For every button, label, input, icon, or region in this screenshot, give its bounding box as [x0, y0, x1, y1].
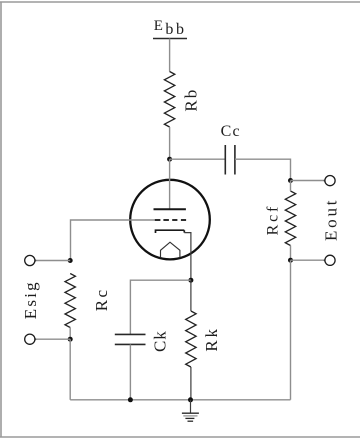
wire end nub at Eout bottom terminal [324, 259, 326, 261]
junction node A (plate node) [167, 157, 172, 162]
wire Rk bottom to rail [190, 367, 192, 400]
wire to Esig top terminal [34, 260, 70, 262]
cathode lead wire to cathode node [184, 233, 191, 281]
junction ground at rail [188, 397, 193, 402]
wire Cc right plate to output node [235, 159, 291, 180]
terminal Eout bottom [325, 255, 335, 265]
terminal Esig bottom [25, 334, 35, 344]
ground symbol [182, 413, 199, 421]
label Ebb [154, 18, 187, 38]
wire Rcf bottom stub [290, 246, 292, 261]
svg-text:Cc: Cc [221, 123, 241, 140]
capacitor Cc [225, 145, 235, 175]
terminal Esig top [25, 255, 35, 265]
wire Ebb terminal to Rb top [169, 39, 171, 72]
svg-text:bb: bb [165, 21, 186, 38]
capacitor Ck [115, 334, 146, 344]
resistor Rc [65, 274, 75, 328]
wire Rcf top stub [290, 181, 292, 192]
tube grid (dashed) [155, 219, 187, 221]
wire cathode node to Ck branch [130, 280, 191, 334]
tube cathode [156, 230, 185, 233]
junction Ck at rail [128, 397, 133, 402]
junction output bottom node [288, 258, 293, 263]
ground stem [190, 400, 192, 413]
svg-text:Rc: Rc [92, 288, 111, 312]
junction cathode node [188, 278, 193, 283]
tube plate (anode) [154, 208, 186, 210]
wire Rb bottom to node A [169, 127, 171, 159]
resistor Rcf [285, 191, 295, 246]
junction input bottom node [68, 337, 73, 342]
terminal Eout top [325, 176, 335, 186]
wire Ck bottom to rail [129, 344, 131, 399]
svg-text:Esig: Esig [21, 280, 40, 319]
resistor Rb [164, 72, 174, 128]
svg-text:Rcf: Rcf [264, 204, 281, 236]
svg-text:Rk: Rk [202, 326, 221, 351]
resistor Rk [186, 311, 196, 367]
wire node A to plate [169, 159, 171, 208]
wire Rc bottom stub [69, 328, 71, 340]
bottom rail wire [70, 399, 290, 401]
wire end nub at Esig top terminal [34, 259, 36, 261]
wire to Esig bottom terminal [34, 338, 70, 340]
wire to Eout top terminal [291, 180, 325, 182]
junction output top node [288, 178, 293, 183]
wire grid to input node [71, 220, 155, 261]
Ebb supply terminal bar [153, 38, 187, 40]
junction input top node [68, 258, 73, 263]
svg-text:Ck: Ck [150, 330, 169, 352]
wire end nub at Eout top terminal [324, 180, 326, 182]
wire cathode node to Rk [190, 280, 192, 311]
wire to Eout bottom terminal [291, 259, 325, 261]
triode tube envelope U1 [130, 180, 210, 260]
wire end nub at Esig bottom terminal [34, 338, 36, 340]
wire node A to Cc left plate [170, 158, 225, 160]
wire left side down to bottom rail [69, 339, 71, 400]
svg-text:Eout: Eout [321, 198, 340, 241]
svg-text:Rb: Rb [182, 88, 201, 112]
wire right side down to bottom rail [290, 260, 292, 400]
tube filament heater [161, 242, 180, 257]
svg-text:E: E [154, 18, 163, 34]
